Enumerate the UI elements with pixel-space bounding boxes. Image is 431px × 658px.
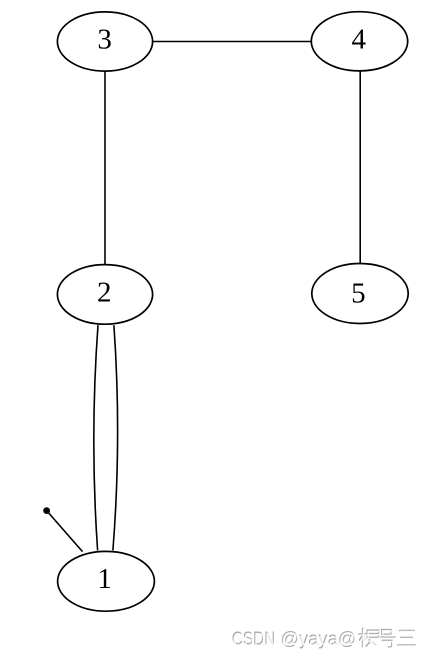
edge 1-point [48,512,83,552]
point node [43,507,50,514]
svg-text:CSDN: CSDN [233,630,277,650]
node 2 [57,265,152,325]
watermark emboss highlight [359,629,416,649]
svg-text:4: 4 [352,23,367,55]
edge 2-1 (left curve) [94,325,98,550]
watermark latin text [232,629,358,650]
edge 3-4 [152,41,311,43]
svg-text:2: 2 [97,277,112,309]
edge 3-2 [104,71,106,265]
svg-text:3: 3 [97,24,112,56]
svg-text:1: 1 [97,563,112,595]
node 3 [57,12,152,71]
watermark 三 [397,631,415,646]
watermark 号 [378,630,395,648]
node 4 [311,12,407,71]
edge 2-1 (right curve) [113,325,118,550]
watermark CSDN @yaya@根号三 [232,628,417,650]
node 5 [312,264,408,324]
svg-text:@yaya@: @yaya@ [281,630,357,650]
edge 4-5 [359,71,361,264]
node 1 [58,551,155,611]
watermark 根 [358,628,378,648]
svg-text:5: 5 [351,278,366,310]
